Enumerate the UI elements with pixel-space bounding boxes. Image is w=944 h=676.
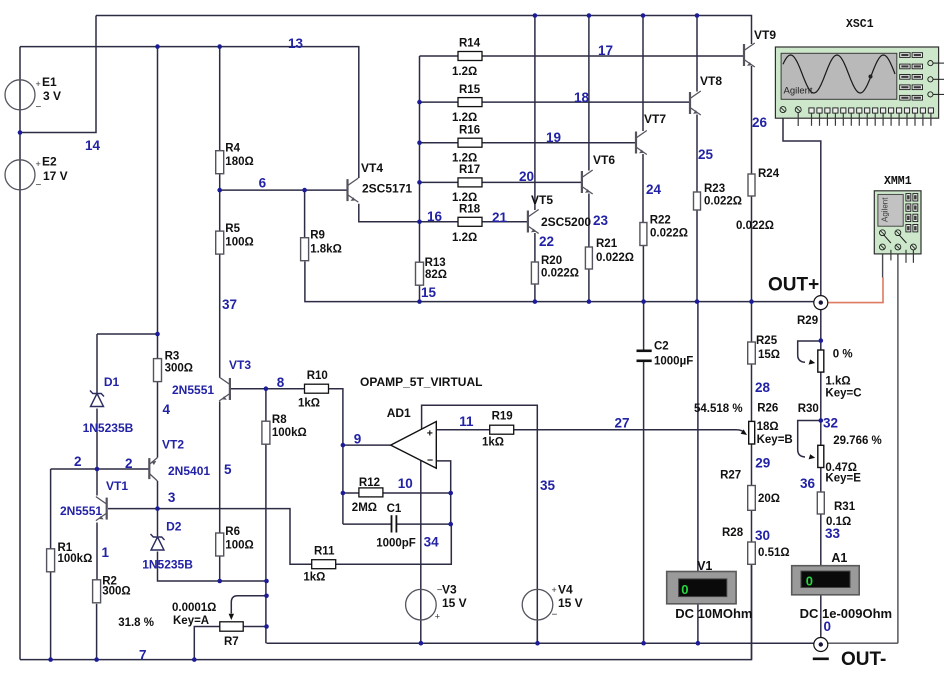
wire R8 bottom drop to ground rail corner bbox=[265, 444, 267, 644]
wire R2 bottom to node 7 rail bbox=[96, 604, 98, 660]
svg-text:OPAMP_5T_VIRTUAL: OPAMP_5T_VIRTUAL bbox=[360, 375, 482, 389]
voltage source V3 15V bbox=[406, 589, 437, 620]
resistor R6 100ohm bbox=[216, 533, 224, 556]
svg-text:0.022Ω: 0.022Ω bbox=[704, 196, 742, 208]
wire R4 chain from node 13 rail bbox=[219, 47, 221, 151]
svg-text:18Ω: 18Ω bbox=[757, 421, 779, 433]
wire oscilloscope probe to OUT+ terminal bbox=[783, 111, 821, 296]
svg-text:0.022Ω: 0.022Ω bbox=[541, 268, 579, 280]
svg-text:R18: R18 bbox=[459, 204, 481, 216]
svg-text:15 V: 15 V bbox=[558, 596, 583, 610]
wire node 20 to VT6 base bbox=[482, 181, 582, 183]
resistor R1 100kohm bbox=[47, 549, 55, 572]
resistor R13 82ohm bbox=[416, 262, 424, 285]
wire R4 bottom to node 6 bbox=[219, 174, 221, 191]
wire node 11 op-amp + input to R19 bbox=[436, 429, 489, 431]
wire V4 bottom to ground rail bbox=[536, 620, 538, 643]
wire VT5 collector rail bbox=[534, 16, 536, 211]
svg-text:15: 15 bbox=[421, 285, 437, 300]
wire VT2 collector to node 3 bbox=[157, 481, 159, 509]
svg-text:54.518 %: 54.518 % bbox=[694, 403, 743, 415]
svg-text:0.022Ω: 0.022Ω bbox=[736, 220, 774, 232]
transistor VT3 2N5551 bbox=[219, 377, 230, 401]
wire VT1 collector to node 2 bbox=[96, 469, 98, 496]
svg-text:2: 2 bbox=[125, 456, 133, 471]
wire C1 left lead bbox=[343, 523, 392, 525]
svg-text:C1: C1 bbox=[387, 503, 402, 515]
junction 697.9,643.2 bbox=[696, 641, 701, 646]
svg-text:D2: D2 bbox=[166, 520, 182, 534]
svg-text:33: 33 bbox=[825, 526, 841, 541]
svg-text:6: 6 bbox=[259, 176, 267, 191]
wire C2 bottom lead to ground rail bbox=[643, 361, 645, 643]
op-amp AD1 OPAMP_5T_VIRTUAL bbox=[391, 422, 437, 469]
svg-text:100kΩ: 100kΩ bbox=[58, 553, 93, 565]
resistor R9 1.8kohm bbox=[301, 238, 309, 261]
svg-text:1: 1 bbox=[102, 545, 110, 560]
svg-text:R31: R31 bbox=[834, 501, 856, 513]
wire V1 bottom lead to ground rail bbox=[697, 604, 699, 643]
voltage source V4 15V bbox=[522, 589, 553, 620]
resistor R31 0.1ohm bbox=[817, 492, 824, 514]
svg-text:AD1: AD1 bbox=[387, 406, 411, 420]
wire R3 bottom node 4 to VT2 emitter bbox=[157, 381, 159, 458]
junction 643,15.5 bbox=[641, 13, 646, 18]
svg-text:17: 17 bbox=[598, 43, 613, 58]
wire op-amp inverting input to node 10/34 drop bbox=[436, 461, 450, 524]
junction 266.5,581 bbox=[264, 579, 269, 584]
junction 588.9,15.5 bbox=[587, 13, 592, 18]
svg-text:R19: R19 bbox=[492, 411, 513, 423]
svg-text:35: 35 bbox=[540, 478, 556, 493]
svg-text:R24: R24 bbox=[758, 168, 780, 180]
svg-text:28: 28 bbox=[755, 380, 771, 395]
wire R21 bottom to node 15 rail bbox=[588, 269, 590, 302]
svg-text:R21: R21 bbox=[596, 238, 618, 250]
resistor R5 100ohm bbox=[216, 231, 224, 254]
svg-text:E1: E1 bbox=[42, 75, 57, 89]
wire R9 bottom to node 15 rail bbox=[305, 262, 814, 302]
capacitor C1 1000pF bbox=[391, 515, 393, 532]
svg-text:VT2: VT2 bbox=[162, 437, 184, 451]
wire node 9 down to R12/C1 bbox=[342, 445, 344, 524]
svg-text:20: 20 bbox=[519, 169, 534, 184]
svg-text:15Ω: 15Ω bbox=[758, 349, 780, 361]
svg-text:1.kΩ: 1.kΩ bbox=[825, 375, 850, 387]
resistor R14 1.2ohm bbox=[458, 52, 482, 61]
svg-text:Agilent: Agilent bbox=[784, 86, 813, 97]
wire node 2 horizontal bbox=[51, 468, 150, 470]
resistor R8 100kohm bbox=[262, 421, 270, 444]
svg-text:1000pF: 1000pF bbox=[376, 538, 416, 550]
resistor R20 0.022ohm bbox=[531, 262, 538, 284]
resistor R17 1.2ohm bbox=[458, 178, 482, 187]
wire node 28 R25 to R26 bbox=[751, 364, 753, 421]
resistor R24 0.022ohm bbox=[748, 174, 755, 196]
svg-text:VT8: VT8 bbox=[700, 74, 722, 88]
terminal OUT- bbox=[814, 638, 828, 652]
wire D1 top tap bbox=[97, 333, 158, 335]
svg-text:16: 16 bbox=[427, 209, 443, 224]
svg-text:−: − bbox=[427, 455, 433, 467]
wire node 37 R5 bottom to VT3 collector bbox=[219, 254, 221, 377]
resistor R10 1kohm bbox=[305, 384, 329, 393]
junction 537.5,643.2 bbox=[535, 641, 540, 646]
svg-text:3 V: 3 V bbox=[43, 89, 61, 103]
svg-text:25: 25 bbox=[698, 147, 714, 162]
svg-text:VT6: VT6 bbox=[593, 153, 615, 167]
svg-text:22: 22 bbox=[539, 234, 554, 249]
potentiometer R26 18ohm Key=B bbox=[749, 421, 755, 444]
svg-text:DC 1e-009Ohm: DC 1e-009Ohm bbox=[800, 606, 892, 621]
wire R30 to R31 node 36 bbox=[820, 468, 822, 493]
resistor R19 1kohm bbox=[490, 425, 514, 434]
svg-text:R10: R10 bbox=[307, 370, 328, 382]
wire node 3 from VT1 base to R11 bbox=[108, 509, 312, 565]
wire R15 left lead bbox=[420, 101, 459, 103]
svg-text:4: 4 bbox=[163, 402, 171, 417]
svg-text:V3: V3 bbox=[442, 582, 457, 596]
svg-text:OUT-: OUT- bbox=[841, 649, 886, 670]
junction 265.9,388.7 bbox=[264, 386, 269, 391]
wire VT8 collector rail bbox=[696, 16, 698, 92]
resistor R27 20ohm bbox=[748, 486, 756, 511]
junction 697,15.5 bbox=[695, 13, 700, 18]
svg-text:+: + bbox=[36, 79, 41, 89]
svg-text:R12: R12 bbox=[359, 477, 380, 489]
transistor VT6 bbox=[582, 170, 593, 194]
wire op-amp V- pin down through V3 to ground rail bbox=[420, 461, 422, 643]
transistor VT9 bbox=[744, 43, 755, 67]
transistor VT4 2SC5171 bbox=[348, 178, 359, 202]
terminal OUT+ bbox=[814, 296, 828, 310]
wire ground rail node 0 bbox=[267, 642, 814, 644]
svg-text:5: 5 bbox=[224, 462, 232, 477]
svg-text:2N5551: 2N5551 bbox=[172, 383, 214, 397]
wire XMM1 minus lead drop to ground rail bbox=[897, 250, 899, 643]
svg-text:20Ω: 20Ω bbox=[758, 493, 780, 505]
svg-text:R23: R23 bbox=[704, 183, 725, 195]
svg-text:R14: R14 bbox=[459, 38, 481, 50]
potentiometer R29 1.kohm Key=C bbox=[818, 350, 824, 372]
wire R11 right lead up to node 34 bbox=[334, 524, 451, 564]
junction 266.5,626.5 bbox=[264, 624, 269, 629]
wire bottom rail node 7 bbox=[20, 564, 752, 659]
svg-text:100Ω: 100Ω bbox=[225, 540, 253, 552]
svg-text:V1: V1 bbox=[697, 559, 712, 573]
svg-text:34: 34 bbox=[424, 534, 440, 549]
svg-text:100kΩ: 100kΩ bbox=[272, 427, 307, 439]
wire R10 right to node 9 drop bbox=[328, 389, 343, 445]
junction 643.6,643.2 bbox=[641, 641, 646, 646]
wire node 17 to VT9 base bbox=[482, 55, 744, 57]
svg-text:26: 26 bbox=[752, 115, 768, 130]
wire V1 top lead bbox=[697, 302, 699, 572]
svg-text:1000µF: 1000µF bbox=[654, 355, 693, 367]
wire D2 top lead from node 3 bbox=[157, 509, 159, 536]
wire top positive rail to VT9 collector bbox=[96, 16, 752, 45]
svg-text:1.8kΩ: 1.8kΩ bbox=[310, 244, 342, 256]
wire R22 bottom to node 15 rail bbox=[642, 245, 644, 301]
junction 419.5,221.8 bbox=[417, 220, 422, 225]
svg-text:1.2Ω: 1.2Ω bbox=[452, 232, 477, 244]
svg-text:1.2Ω: 1.2Ω bbox=[452, 66, 477, 78]
wire node 9 to op-amp output bbox=[343, 444, 391, 446]
wire R16 left lead bbox=[420, 142, 459, 144]
junction 219.7,190.1 bbox=[217, 188, 222, 193]
wire R5 top from node 6 bbox=[219, 190, 221, 231]
svg-text:R15: R15 bbox=[459, 84, 481, 96]
junction 534.9,301.6 bbox=[533, 299, 538, 304]
junction 820.8,420.5 bbox=[819, 418, 824, 423]
svg-text:R7: R7 bbox=[224, 636, 239, 648]
svg-text:300Ω: 300Ω bbox=[102, 585, 130, 597]
svg-text:29: 29 bbox=[755, 455, 770, 470]
svg-text:31.8 %: 31.8 % bbox=[118, 617, 154, 629]
svg-text:1.2Ω: 1.2Ω bbox=[452, 192, 477, 204]
svg-text:19: 19 bbox=[546, 130, 561, 145]
svg-text:0.022Ω: 0.022Ω bbox=[650, 228, 688, 240]
svg-text:VT4: VT4 bbox=[361, 161, 383, 175]
capacitor C2 1000uF bbox=[637, 349, 652, 352]
svg-text:2: 2 bbox=[74, 454, 82, 469]
resistor R3 300ohm bbox=[154, 359, 162, 382]
wire node 2 to R1 bbox=[50, 469, 52, 549]
svg-text:13: 13 bbox=[288, 36, 304, 51]
svg-text:11: 11 bbox=[459, 414, 474, 429]
wire R8 top drop from node 8 bbox=[265, 389, 267, 422]
wire node 21 to VT5 base bbox=[482, 221, 528, 223]
wire VT3 base node 8 to R10 bbox=[231, 388, 305, 390]
wire R23 bottom to node 15 rail bbox=[696, 210, 698, 302]
svg-text:OUT+: OUT+ bbox=[768, 275, 819, 296]
potentiometer R7 0.0001ohm Key=A bbox=[220, 622, 243, 631]
svg-text:0: 0 bbox=[824, 619, 832, 634]
svg-text:23: 23 bbox=[593, 213, 609, 228]
svg-text:24: 24 bbox=[646, 182, 662, 197]
svg-text:7: 7 bbox=[139, 648, 147, 663]
wire VT7 emitter node 24 to R22 bbox=[642, 154, 644, 223]
svg-text:10: 10 bbox=[398, 476, 413, 491]
svg-text:1.2Ω: 1.2Ω bbox=[452, 153, 477, 165]
svg-text:+: + bbox=[552, 585, 557, 595]
svg-text:21: 21 bbox=[492, 210, 508, 225]
wire R7 right lead bbox=[243, 626, 266, 628]
voltmeter V1 DC 10MOhm bbox=[667, 572, 736, 604]
junction 419.5,182.4 bbox=[417, 180, 422, 185]
wire node 19 to VT7 base bbox=[482, 142, 636, 144]
resistor R28 0.51ohm bbox=[748, 542, 756, 564]
transistor VT5 2SC5200 bbox=[528, 210, 539, 234]
svg-text:E2: E2 bbox=[42, 155, 57, 169]
svg-text:2SC5171: 2SC5171 bbox=[362, 182, 412, 196]
wire VT4 emitter to node 16 bbox=[359, 204, 458, 222]
junction 97,469 bbox=[95, 467, 100, 472]
svg-text:VT5: VT5 bbox=[531, 193, 553, 207]
svg-text:9: 9 bbox=[354, 432, 362, 447]
wire E1 E2 chain down left edge to node 7 rail bbox=[19, 47, 21, 660]
wire A1 bottom node 0 to OUT- terminal bbox=[820, 595, 822, 638]
svg-text:XSC1: XSC1 bbox=[846, 18, 874, 31]
wire node 10 R12 right lead bbox=[382, 492, 451, 494]
wire D1 top lead bbox=[96, 334, 98, 393]
svg-text:100Ω: 100Ω bbox=[225, 237, 253, 249]
wire VT8 emitter node 25 to R23 bbox=[696, 115, 698, 193]
wire node 27 R19 to R26 wiper bbox=[513, 430, 745, 433]
wire XMM1 plus pin stub bbox=[882, 250, 884, 278]
wire R6 bottom to link bbox=[219, 556, 221, 582]
svg-text:1kΩ: 1kΩ bbox=[482, 436, 504, 448]
junction 820.8,340.6 bbox=[819, 338, 824, 343]
wire VT6 collector rail bbox=[588, 16, 590, 171]
multimeter XMM1 bbox=[874, 191, 921, 263]
wire R1 bottom to node 7 rail bbox=[50, 572, 52, 660]
resistor R12 2Mohm bbox=[359, 488, 383, 497]
svg-text:+: + bbox=[435, 612, 440, 622]
wire C1 right lead node 34 bbox=[396, 523, 450, 525]
svg-text:R27: R27 bbox=[720, 470, 741, 482]
battery E2 17 V bbox=[5, 160, 35, 190]
junction 419.5,301.6 bbox=[417, 299, 422, 304]
transistor VT2 2N5401 pnp bbox=[149, 458, 157, 482]
svg-text:0 %: 0 % bbox=[833, 349, 853, 361]
svg-text:1kΩ: 1kΩ bbox=[303, 572, 325, 584]
wire VT9 emitter node 26 to R24 bbox=[751, 66, 753, 174]
wire ground rail OUT- to XMM1 drop bbox=[828, 642, 898, 644]
wire R3 chain from node 13 rail bbox=[157, 47, 159, 359]
svg-text:−: − bbox=[36, 102, 42, 113]
svg-text:R30: R30 bbox=[798, 403, 819, 415]
junction 450.7,493 bbox=[448, 491, 453, 496]
junction 157.5,334 bbox=[155, 332, 160, 337]
svg-text:+: + bbox=[36, 159, 41, 169]
svg-text:Agilent: Agilent bbox=[881, 197, 890, 222]
wire node 13 rail to VT4 collector bbox=[20, 47, 359, 178]
resistor R2 300ohm bbox=[93, 580, 101, 603]
svg-text:R20: R20 bbox=[541, 255, 562, 267]
wire VT5 emitter node 22 to R20 bbox=[534, 233, 536, 262]
svg-text:1N5235B: 1N5235B bbox=[142, 557, 193, 571]
svg-text:R8: R8 bbox=[272, 414, 287, 426]
svg-text:R26: R26 bbox=[757, 402, 778, 414]
junction 697,301.6 bbox=[695, 299, 700, 304]
resistor R4 180ohm bbox=[216, 151, 224, 174]
svg-text:300Ω: 300Ω bbox=[165, 362, 193, 374]
wire R28 bottom to node 7 rail bbox=[751, 564, 753, 659]
wire ladder rail R14-R18 bbox=[419, 56, 421, 222]
junction 157.5,46.6 bbox=[155, 44, 160, 49]
svg-text:17 V: 17 V bbox=[43, 169, 68, 183]
wire R29 wiper bracket bbox=[798, 341, 821, 362]
resistor R21 0.022ohm bbox=[585, 247, 592, 269]
junction 588.9,301.6 bbox=[587, 299, 592, 304]
svg-text:+: + bbox=[427, 428, 433, 440]
wire R13 bottom node 15 bbox=[419, 286, 421, 302]
wire node 6 horizontal to VT4 base bbox=[220, 189, 348, 191]
wire VT6 emitter node 23 to R21 bbox=[588, 194, 590, 248]
wire XMM1 plus lead red to OUT+ bbox=[828, 278, 883, 303]
wire R20 bottom to node 15 rail bbox=[534, 284, 536, 302]
svg-text:DC 10MOhm: DC 10MOhm bbox=[675, 606, 752, 621]
junction 643.6,301.6 bbox=[641, 299, 646, 304]
junction 219.7,581 bbox=[217, 579, 222, 584]
resistor R11 1kohm bbox=[312, 560, 336, 569]
svg-text:Key=E: Key=E bbox=[825, 473, 861, 485]
wire R31 bottom node 33 to A1 bbox=[820, 514, 822, 566]
wire D2 bottom lead to R6/R8 link bbox=[158, 552, 267, 582]
resistor R25 15ohm bbox=[748, 342, 756, 364]
svg-text:14: 14 bbox=[85, 138, 101, 153]
resistor R16 1.2ohm bbox=[458, 138, 482, 147]
svg-text:0: 0 bbox=[681, 582, 688, 597]
junction 219.7,46.6 bbox=[217, 44, 222, 49]
svg-text:−: − bbox=[552, 610, 558, 621]
junction 342.9,493 bbox=[341, 491, 346, 496]
wire R29 to R30 node 32 bbox=[820, 372, 822, 445]
svg-text:R11: R11 bbox=[314, 546, 335, 558]
svg-text:Key=C: Key=C bbox=[825, 388, 861, 400]
wire R7 wiper bbox=[231, 596, 266, 614]
svg-text:8: 8 bbox=[277, 375, 285, 390]
wire node 18 to VT8 base bbox=[482, 101, 690, 103]
oscilloscope XSC1 bbox=[775, 47, 944, 126]
svg-text:R22: R22 bbox=[650, 214, 671, 226]
wire VT1 emitter node 1 to R2 bbox=[96, 523, 98, 580]
svg-text:VT1: VT1 bbox=[106, 479, 128, 493]
junction 419.5,142.7 bbox=[417, 140, 422, 145]
junction 194.3,659.6 bbox=[192, 657, 197, 662]
transistor VT8 bbox=[690, 91, 701, 115]
svg-text:R9: R9 bbox=[310, 230, 325, 242]
wire R24 bottom to OUT+ rail bbox=[751, 196, 753, 302]
svg-text:VT7: VT7 bbox=[644, 112, 666, 126]
svg-text:0.51Ω: 0.51Ω bbox=[758, 547, 790, 559]
svg-text:2SC5200: 2SC5200 bbox=[541, 215, 591, 229]
junction 450.7,524.1 bbox=[448, 522, 453, 527]
svg-text:82Ω: 82Ω bbox=[425, 269, 447, 281]
wire R12 left lead bbox=[343, 492, 359, 494]
svg-text:2N5401: 2N5401 bbox=[168, 464, 210, 478]
wire R14 left lead bbox=[420, 55, 459, 57]
wire node 14 vertical from top rail to E1/E2 junction bbox=[20, 16, 96, 133]
svg-text:37: 37 bbox=[222, 297, 237, 312]
svg-text:−: − bbox=[36, 180, 42, 191]
junction 751.5,301.6 bbox=[749, 299, 754, 304]
resistor R22 0.022ohm bbox=[640, 223, 647, 246]
wire VT7 collector rail bbox=[642, 16, 644, 132]
svg-text:R28: R28 bbox=[722, 527, 744, 539]
junction 50.6,659.6 bbox=[48, 657, 53, 662]
svg-text:0.022Ω: 0.022Ω bbox=[596, 252, 634, 264]
wire node 29 R26 to R27 bbox=[751, 444, 753, 486]
svg-text:180Ω: 180Ω bbox=[225, 156, 253, 168]
wire D1 bottom lead to node 2 bbox=[96, 409, 98, 470]
svg-text:32: 32 bbox=[823, 416, 838, 431]
junction 96.6,659.6 bbox=[94, 657, 99, 662]
svg-text:R25: R25 bbox=[756, 335, 778, 347]
svg-text:C2: C2 bbox=[654, 341, 669, 353]
svg-text:R4: R4 bbox=[225, 143, 240, 155]
svg-text:R16: R16 bbox=[459, 125, 480, 137]
svg-text:2N5551: 2N5551 bbox=[60, 504, 102, 518]
wire VT3 emitter node 5 to R6 bbox=[219, 402, 221, 534]
junction 534.9,15.5 bbox=[533, 13, 538, 18]
battery E1 3 V bbox=[5, 80, 35, 110]
resistor R18 1.2ohm bbox=[458, 217, 482, 226]
svg-text:0: 0 bbox=[806, 573, 813, 588]
svg-text:0.0001Ω: 0.0001Ω bbox=[172, 602, 216, 614]
junction 157.5,508.6 bbox=[155, 506, 160, 511]
